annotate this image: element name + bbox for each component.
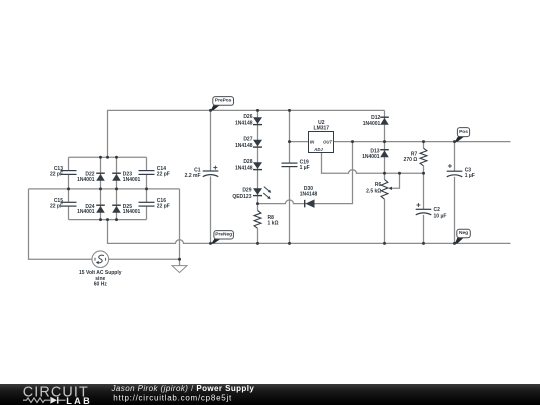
svg-text:1 kΩ: 1 kΩ <box>268 220 279 226</box>
svg-text:1N4001: 1N4001 <box>77 177 95 183</box>
svg-text:60 Hz: 60 Hz <box>94 282 108 288</box>
svg-text:2.5 kΩ: 2.5 kΩ <box>366 188 381 194</box>
svg-text:Pos: Pos <box>459 129 468 135</box>
svg-text:1N4001: 1N4001 <box>123 177 141 183</box>
svg-text:22 pF: 22 pF <box>50 172 63 178</box>
svg-text:OUT: OUT <box>323 139 332 144</box>
svg-text:D26: D26 <box>243 114 252 120</box>
svg-text:QED123: QED123 <box>232 194 251 200</box>
svg-text:1N4148: 1N4148 <box>300 191 318 197</box>
svg-text:1N4148: 1N4148 <box>235 120 253 126</box>
svg-text:D28: D28 <box>243 159 252 165</box>
svg-text:22 pF: 22 pF <box>157 203 170 209</box>
svg-text:1N4001: 1N4001 <box>363 121 381 127</box>
svg-text:Jason Pirok (jpirok) / Power S: Jason Pirok (jpirok) / Power Supply <box>111 384 255 393</box>
svg-text:22 pF: 22 pF <box>50 203 63 209</box>
svg-text:1N4148: 1N4148 <box>235 143 253 149</box>
svg-text:Neg: Neg <box>459 230 468 236</box>
svg-text:2.2 mF: 2.2 mF <box>185 173 201 179</box>
svg-text:R6: R6 <box>375 182 382 188</box>
svg-text:ADJ: ADJ <box>313 147 323 152</box>
svg-text:1N4148: 1N4148 <box>235 165 253 171</box>
svg-text:http://circuitlab.com/cp8e5jt: http://circuitlab.com/cp8e5jt <box>113 393 232 402</box>
svg-text:1N4001: 1N4001 <box>123 209 141 215</box>
svg-text:PreNeg: PreNeg <box>215 232 232 238</box>
svg-text:22 pF: 22 pF <box>157 172 170 178</box>
svg-text:15 Volt AC Supply: 15 Volt AC Supply <box>79 270 122 276</box>
svg-text:1 µF: 1 µF <box>465 173 475 179</box>
svg-text:1N4001: 1N4001 <box>77 209 95 215</box>
svg-text:LAB: LAB <box>66 396 92 405</box>
svg-text:D27: D27 <box>243 137 252 143</box>
svg-text:1N4001: 1N4001 <box>362 154 380 160</box>
svg-text:LM317: LM317 <box>314 126 330 132</box>
svg-text:270 Ω: 270 Ω <box>404 157 418 163</box>
svg-text:PrePos: PrePos <box>215 98 232 104</box>
svg-text:10 µF: 10 µF <box>434 213 447 219</box>
svg-text:1 µF: 1 µF <box>300 165 310 171</box>
svg-text:D29: D29 <box>242 187 251 193</box>
svg-text:C2: C2 <box>434 207 441 213</box>
